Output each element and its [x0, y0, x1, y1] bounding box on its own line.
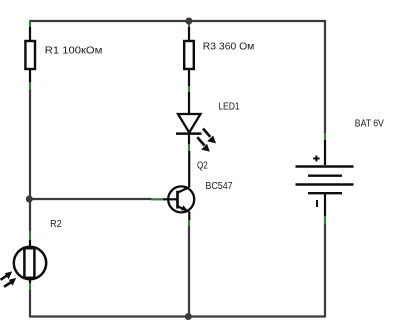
wire right upper (top rail to battery): [324, 21, 326, 133]
junction top (R3 / top rail node): [185, 18, 192, 25]
svg-text:BC547: BC547: [205, 181, 232, 192]
wire bottom rail: [30, 315, 325, 317]
photoresistor R2: [1, 231, 47, 290]
svg-text:R2: R2: [50, 219, 62, 230]
transistor Q2: [151, 151, 194, 226]
svg-text:R3 360 Ом: R3 360 Ом: [203, 42, 255, 53]
wire left (R1 bottom to base node): [29, 89, 31, 199]
junction bottom (emitter node): [185, 313, 192, 320]
wire right lower (battery to bottom rail): [324, 223, 326, 317]
resistor R3: [184, 23, 194, 92]
battery BAT: [296, 133, 354, 224]
svg-text:LED1: LED1: [218, 101, 240, 112]
svg-text:BAT 6V: BAT 6V: [355, 119, 384, 130]
svg-text:Q2: Q2: [197, 161, 208, 172]
resistor R1: [25, 21, 35, 90]
wire R2 bottom to bottom rail: [29, 290, 31, 317]
wire top rail: [30, 20, 325, 22]
wire left lower (node to R2 top): [29, 199, 31, 231]
wire base (node to Q2 base): [30, 198, 151, 200]
junction base node: [26, 196, 33, 203]
svg-text:R1 100кОм: R1 100кОм: [45, 46, 102, 57]
LED LED1: [176, 92, 216, 152]
wire emitter to bottom rail: [188, 226, 190, 317]
